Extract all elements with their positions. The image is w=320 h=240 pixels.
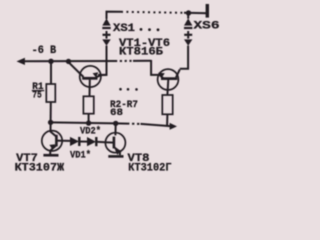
svg-text:XS6: XS6	[194, 21, 220, 33]
node dot bus-R2	[86, 120, 91, 125]
resistor R7 (of R2-R7) under VT2	[162, 95, 172, 114]
transistor VT7	[42, 122, 70, 155]
node dot R1 on rail	[48, 59, 53, 64]
svg-text:VD2*: VD2*	[80, 125, 101, 137]
svg-text:-6 В: -6 В	[32, 45, 57, 57]
wire top rail solid left	[107, 12, 122, 19]
node dot bus-R1/VT7	[48, 120, 53, 125]
node junction dot on top rail	[186, 10, 191, 15]
diode VD2	[87, 137, 105, 146]
wire -6V rail with left arrow	[17, 58, 25, 65]
svg-text:КТ3107Ж: КТ3107Ж	[15, 162, 65, 174]
node mid ellipsis	[119, 88, 122, 91]
svg-text:КТ816Б: КТ816Б	[119, 47, 163, 59]
wire XS1 down, crossing -6V rail, to VT1 collector	[98, 46, 107, 75]
connector XS1	[102, 18, 110, 45]
svg-text:VD1*: VD1*	[70, 150, 91, 162]
connector XS6	[184, 13, 192, 46]
wire rail corner down to VT2 emitter	[151, 60, 159, 75]
resistor R1	[46, 84, 55, 102]
wire XS6 down to VT2 collector	[180, 46, 188, 69]
wire R2 bottom lead	[88, 114, 90, 123]
wire R1 top lead	[50, 61, 52, 84]
paper background	[0, 0, 226, 179]
wire top rail dotted middle	[121, 12, 184, 13]
transistor VT2	[158, 69, 180, 95]
transistor VT8	[105, 123, 125, 156]
bus right arrow	[170, 123, 177, 130]
transistor VT1	[69, 62, 107, 96]
svg-text:КТ3102Г: КТ3102Г	[128, 162, 172, 174]
wire top rail solid right	[184, 12, 209, 14]
wire R1 bottom lead	[50, 102, 52, 122]
wire R7 bottom lead	[166, 114, 168, 126]
diode VD1	[70, 137, 87, 146]
node dot bus-VT8 collector	[113, 121, 118, 126]
node dot VT1 emitter on rail	[66, 59, 71, 64]
resistor R2 (of R2-R7) under VT1	[83, 96, 93, 113]
svg-text:XS1: XS1	[113, 23, 135, 35]
svg-text:68: 68	[110, 107, 123, 119]
terminal bar right end	[206, 4, 209, 18]
wire base bus	[51, 122, 116, 123]
node ellipsis after XS1	[140, 28, 143, 31]
svg-text:75: 75	[32, 90, 42, 102]
